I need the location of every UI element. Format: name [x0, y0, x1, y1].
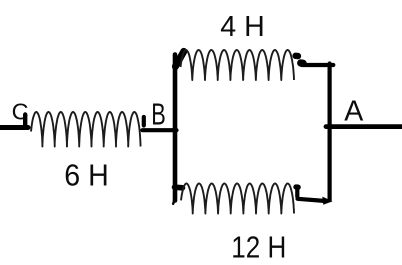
- wire: left vertical bus at node B: [173, 55, 178, 201]
- wire: input lead at node C: [0, 125, 28, 130]
- wire: output lead at node A: [326, 124, 402, 129]
- wire: top branch to right bus: [302, 63, 333, 67]
- inductor L2 4 H coil: [181, 50, 295, 80]
- svg-text:6 H: 6 H: [64, 159, 109, 193]
- wire: bottom-left corner joint to L3: [175, 184, 183, 190]
- inductor L3 12 H coil: [181, 184, 294, 214]
- wire: tapered tip at bottom of left bus: [173, 199, 174, 204]
- wire: L1 to node B: [143, 128, 177, 132]
- svg-text:A: A: [344, 96, 364, 128]
- svg-text:4 H: 4 H: [220, 11, 264, 43]
- svg-text:12 H: 12 H: [231, 231, 286, 265]
- inductor L1 6 H coil: [31, 112, 141, 147]
- svg-text:B: B: [151, 98, 166, 132]
- wire: arrowhead joint at bottom-right junction: [322, 197, 332, 205]
- wire: top-right scribble joint at L2 end: [296, 53, 298, 60]
- wire: right vertical bus at node A: [328, 64, 332, 201]
- wire: tick at right end of inductor L3: [295, 187, 299, 197]
- wire: bottom branch to right bus: [298, 199, 325, 201]
- wire: junction tick at right end of inductor L1: [142, 117, 146, 126]
- wire: junction tick at left end of inductor L1: [23, 115, 27, 128]
- wire: top-left corner joint to L2: [175, 51, 183, 66]
